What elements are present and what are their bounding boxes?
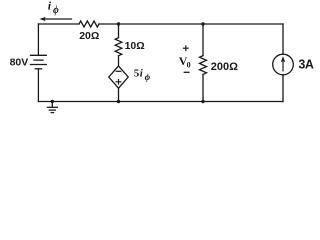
resistor 200ohm (vertical zigzag) [200, 56, 207, 75]
svg-text:200Ω: 200Ω [211, 61, 238, 73]
minus sign inside diamond [116, 70, 121, 72]
current source 3A (circle) [273, 54, 294, 75]
arrow inside current source [282, 61, 284, 71]
wire top rail right segment [99, 23, 283, 25]
svg-text:i: i [48, 0, 52, 13]
node dot top of 10ohm branch [117, 22, 120, 25]
node dot top of 200ohm branch [201, 22, 204, 25]
svg-text:80V: 80V [10, 57, 29, 69]
svg-text:ϕ: ϕ [145, 73, 151, 83]
plus sign inside diamond [116, 81, 121, 83]
wire top rail left segment [38, 23, 79, 25]
svg-text:0: 0 [187, 60, 191, 69]
label plus of V0 [183, 45, 189, 51]
svg-text:i: i [140, 68, 144, 80]
wire 200ohm branch top [202, 24, 204, 56]
wire middle branch bottom [118, 88, 120, 101]
wire right branch top [282, 24, 284, 54]
wire 200ohm branch bottom [202, 74, 204, 101]
battery 80V plates [31, 54, 47, 56]
svg-text:20Ω: 20Ω [79, 30, 99, 42]
svg-text:3A: 3A [298, 58, 313, 72]
current arrow i-phi (shaft) [44, 18, 72, 20]
svg-text:ϕ: ϕ [53, 5, 59, 16]
node dot ground junction [51, 100, 54, 103]
wire right branch bottom [282, 75, 284, 102]
wire left branch lower (battery to bottom rail) [37, 69, 39, 102]
arrowhead inside current source [281, 56, 286, 62]
resistor 10ohm (vertical zigzag) [115, 38, 122, 56]
wire bottom rail [38, 101, 283, 103]
wire left branch upper (top rail to battery) [37, 24, 39, 55]
current arrow i-phi (head) [40, 17, 46, 21]
ground symbol [51, 102, 53, 108]
wire middle branch top [118, 24, 120, 38]
dependent source 5i (diamond) [109, 66, 128, 88]
node dot bottom of middle branch [117, 100, 120, 103]
node dot bottom of 200ohm branch [201, 100, 204, 103]
wire middle branch mid [118, 56, 120, 66]
label minus of V0 [184, 71, 190, 73]
resistor 20ohm (horizontal zigzag) [79, 21, 99, 27]
svg-text:10Ω: 10Ω [125, 40, 145, 52]
